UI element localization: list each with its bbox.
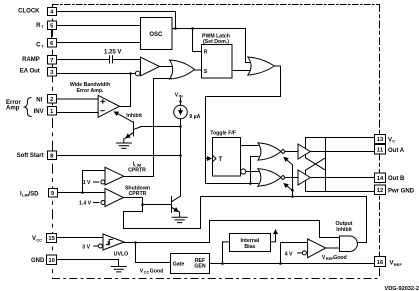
- wire 3V reference stub: [94, 245, 98, 247]
- svg-text:OSC: OSC: [149, 32, 163, 38]
- wire comparator to AND gate: [326, 247, 340, 249]
- wire RT pin to OSC: [57, 25, 141, 27]
- wire 4V reference stub: [298, 252, 302, 254]
- wire cross-couple X: [306, 155, 326, 174]
- svg-text:Good: Good: [150, 268, 164, 274]
- svg-text:Gate: Gate: [173, 261, 185, 267]
- svg-text:INV: INV: [34, 109, 44, 115]
- comparator U3 PWM: [141, 57, 160, 76]
- wire ILIM output to OR gate G1: [124, 79, 172, 177]
- wire Vc rail: [306, 138, 375, 149]
- wire CLOCK pin to OSC output node: [57, 12, 176, 29]
- comparator U8 UVLO: [103, 234, 124, 250]
- svg-text:15: 15: [48, 236, 55, 242]
- current source 9uA: [174, 105, 188, 119]
- wire toggle Q to NOR A: [241, 145, 259, 147]
- error amp minus input mark: [101, 110, 104, 112]
- toggle clock wedge: [213, 155, 217, 162]
- svg-text:Error Amp.: Error Amp.: [77, 88, 104, 94]
- comparator U9 VREF good: [308, 239, 326, 258]
- error amp U5: [98, 95, 119, 117]
- wire riser to ILIM comparator: [83, 171, 106, 193]
- svg-text:CPRTR: CPRTR: [128, 167, 146, 173]
- svg-text:Bias: Bias: [244, 244, 255, 250]
- pin 12: [375, 185, 386, 195]
- svg-text:14: 14: [377, 176, 384, 182]
- pin 3: [48, 68, 57, 77]
- wire power ground rail: [306, 181, 375, 192]
- wire INV pin to error amp: [57, 112, 99, 114]
- transistor Q1: [125, 122, 141, 139]
- svg-text:Amp: Amp: [6, 106, 20, 112]
- wire current source to soft start: [180, 119, 182, 196]
- wire UVLO to REF GEN gate input: [136, 243, 171, 263]
- IC boundary dashed border bottom: [53, 278, 380, 280]
- wire GND pin to ground: [57, 260, 119, 267]
- and-gate G5 output inhibit: [340, 236, 358, 252]
- capacitor 1.25V offset: [110, 56, 113, 63]
- svg-text:R: R: [204, 49, 208, 55]
- wire Out B: [310, 177, 374, 179]
- pin 15: [47, 234, 57, 243]
- wire 1.4V reference stub: [94, 202, 99, 204]
- wire NOR B to driver B: [285, 177, 298, 179]
- ground Q1: [116, 143, 131, 148]
- error amp plus input mark: [101, 100, 105, 104]
- UVLO hysteresis symbol: [107, 239, 113, 244]
- pin 4: [48, 8, 57, 16]
- wire VCC pin to UVLO: [57, 237, 104, 239]
- node EA output junction: [129, 72, 132, 75]
- wire capacitor to PWM comparator: [113, 59, 140, 61]
- svg-text:12: 12: [377, 188, 383, 194]
- wire latch output to OR gate G2: [232, 70, 250, 72]
- PWM latch U2: [202, 45, 233, 79]
- wire PWM comparator to OR gate: [160, 66, 172, 68]
- svg-text:3 V: 3 V: [82, 245, 90, 251]
- svg-text:REF: REF: [394, 262, 403, 267]
- svg-text:Out A: Out A: [388, 148, 405, 154]
- svg-text:4 V: 4 V: [285, 251, 293, 257]
- svg-text:GEN: GEN: [194, 264, 205, 270]
- wire VREF rail: [210, 263, 375, 265]
- wire inhibit arrow into error amp: [114, 112, 133, 122]
- svg-text:CC: CC: [36, 237, 42, 242]
- wire G2 output to toggle clock rail: [206, 66, 281, 184]
- pin 14: [375, 173, 386, 183]
- svg-text:1.25 V: 1.25 V: [104, 49, 121, 55]
- wire RAMP pin to capacitor: [57, 59, 110, 61]
- comparator U7 shutdown: [105, 188, 123, 206]
- svg-text:Good: Good: [333, 255, 347, 261]
- node clock/R junction: [193, 29, 203, 52]
- comparator input bubble: [135, 71, 140, 76]
- wire Out A: [310, 151, 374, 153]
- svg-text:13: 13: [377, 137, 384, 143]
- pin 16: [375, 257, 386, 267]
- svg-text:RAMP: RAMP: [22, 57, 40, 63]
- pin 6: [48, 39, 57, 48]
- error amp bracket: [25, 98, 32, 117]
- or-gate G2: [248, 57, 275, 75]
- pin 9: [49, 189, 58, 198]
- svg-text:7: 7: [50, 58, 53, 64]
- svg-text:(Set Dom.): (Set Dom.): [203, 39, 229, 45]
- wire internal bias tap: [223, 242, 230, 264]
- svg-text:/SD: /SD: [29, 191, 40, 197]
- svg-text:Inhibit: Inhibit: [126, 113, 142, 119]
- svg-text:Toggle F/F: Toggle F/F: [210, 131, 236, 137]
- wire link pin5-pin6: [51, 30, 53, 39]
- wire Q1 emitter to ground: [123, 139, 125, 143]
- svg-text:IN: IN: [179, 94, 183, 99]
- svg-text:EA Out: EA Out: [20, 68, 40, 74]
- buffer driver A: [298, 144, 310, 159]
- svg-text:Inhibit: Inhibit: [336, 227, 352, 233]
- wire EA Out pin to comparator input: [57, 73, 136, 75]
- wire internal bias arrow: [271, 230, 276, 242]
- comparator U6 ILIM: [105, 167, 124, 185]
- wire NOR A lower input: [251, 157, 259, 184]
- Internal Bias block: [230, 234, 271, 252]
- svg-text:CPRTR: CPRTR: [129, 191, 147, 197]
- svg-text:Soft Start: Soft Start: [17, 153, 44, 159]
- wire OR to latch S: [194, 69, 201, 71]
- svg-text:1 V: 1 V: [83, 180, 91, 186]
- node clock junction dots: [174, 27, 177, 30]
- svg-text:CC: CC: [144, 269, 150, 274]
- IC boundary dashed border top: [53, 4, 380, 6]
- node UVLO branch: [134, 241, 137, 244]
- wire driver supply vertical: [325, 138, 327, 192]
- wire Soft Start pin: [57, 155, 181, 157]
- wire NOR A to driver A: [285, 151, 298, 153]
- svg-text:S: S: [204, 69, 208, 75]
- svg-text:UVLO: UVLO: [114, 252, 128, 258]
- svg-text:NI: NI: [36, 98, 42, 104]
- wire inhibit arrow into NOR A: [284, 157, 293, 164]
- wire Q2 emitter stem: [179, 212, 181, 217]
- nor-gate G4: [258, 169, 281, 186]
- toggle flip-flop U4: [213, 138, 241, 177]
- wire inhibit arrow into NOR B: [284, 184, 293, 191]
- svg-text:1.4 V: 1.4 V: [79, 201, 92, 207]
- pin 5: [48, 21, 57, 30]
- toggle Qbar bubble: [241, 169, 246, 174]
- buffer driver B: [298, 170, 310, 185]
- transistor Q2: [172, 196, 181, 212]
- wire inhibit arrows vertical: [292, 165, 294, 197]
- nor-gate G3: [258, 143, 281, 160]
- wire VREF to comparator riser: [281, 243, 308, 264]
- pin 13: [375, 135, 386, 144]
- node shutdown output junction: [141, 203, 144, 206]
- wire ILIM/SD pin: [57, 192, 105, 194]
- svg-text:C: C: [392, 139, 395, 144]
- wire 1V reference stub: [94, 181, 99, 183]
- node NOR input junction: [249, 182, 252, 185]
- svg-text:CLOCK: CLOCK: [18, 9, 40, 15]
- svg-text:2: 2: [50, 97, 53, 103]
- ground GND pin: [111, 267, 126, 272]
- or-gate G1: [170, 60, 195, 79]
- wire UVLO output to output inhibit gate: [124, 221, 339, 243]
- svg-text:11: 11: [377, 148, 384, 154]
- svg-text:T: T: [219, 157, 223, 163]
- svg-text:VDG-92032-2: VDG-92032-2: [384, 286, 419, 291]
- wire OSC clock output: [172, 29, 252, 63]
- svg-text:Internal: Internal: [241, 238, 260, 244]
- pin 10: [47, 255, 57, 265]
- pin 1: [48, 107, 57, 116]
- svg-text:GND: GND: [31, 258, 45, 264]
- wire Q2 base: [143, 204, 172, 206]
- svg-text:Out B: Out B: [388, 176, 405, 182]
- pin 7: [48, 56, 57, 65]
- wire NI pin to error amp: [57, 98, 99, 100]
- IC boundary dashed border left: [52, 5, 54, 279]
- ground Q2: [172, 217, 187, 222]
- pin 8: [48, 151, 57, 160]
- wire Q1 collector to soft start node: [141, 126, 181, 128]
- pin 2: [48, 95, 57, 104]
- svg-text:10: 10: [48, 258, 54, 264]
- wire toggle T stub arrow: [206, 158, 212, 160]
- svg-text:9 µA: 9 µA: [189, 114, 200, 120]
- wire error amp output: [119, 74, 130, 107]
- wire toggle Qbar to NOR B: [246, 171, 258, 173]
- OSC block: [141, 18, 173, 50]
- svg-text:Pwr GND: Pwr GND: [388, 188, 415, 194]
- pin 11: [375, 145, 386, 155]
- REF GEN block: [171, 254, 210, 274]
- svg-text:16: 16: [377, 260, 384, 266]
- wire CT pin to OSC: [57, 42, 141, 44]
- node Vin stub: [180, 98, 182, 105]
- IC boundary dashed border right: [379, 5, 381, 279]
- wire inhibit rail from shutdown comparator: [123, 197, 366, 243]
